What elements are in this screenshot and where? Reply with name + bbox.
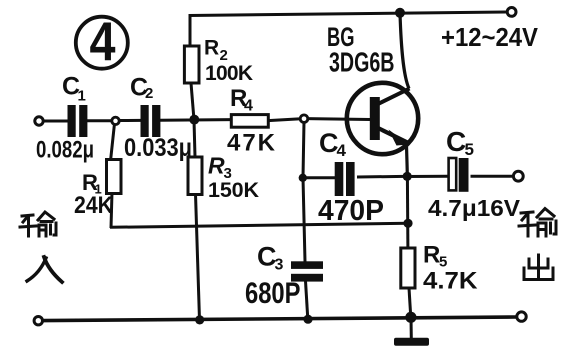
svg-text:1: 1 [78, 88, 86, 105]
svg-text:470P: 470P [318, 195, 384, 227]
svg-text:0.082μ: 0.082μ [36, 137, 94, 164]
svg-text:+12~24V: +12~24V [441, 22, 539, 52]
svg-text:R: R [423, 242, 440, 269]
svg-text:3: 3 [275, 257, 284, 274]
svg-text:C: C [446, 126, 466, 157]
svg-text:3DG6B: 3DG6B [329, 47, 395, 78]
svg-text:4.7K: 4.7K [423, 268, 478, 295]
svg-text:R: R [204, 37, 219, 60]
svg-text:4: 4 [244, 98, 253, 115]
svg-text:100K: 100K [205, 62, 253, 85]
svg-text:0.033μ: 0.033μ [124, 134, 192, 162]
svg-text:4: 4 [90, 10, 117, 71]
svg-text:2: 2 [145, 85, 153, 102]
svg-text:4.7μ16V: 4.7μ16V [428, 195, 521, 221]
svg-text:680P: 680P [245, 277, 301, 310]
svg-text:4: 4 [337, 141, 347, 160]
svg-text:5: 5 [465, 140, 474, 159]
svg-text:150K: 150K [208, 178, 259, 202]
svg-text:47K: 47K [227, 130, 276, 157]
svg-text:R: R [208, 153, 225, 179]
svg-text:24K: 24K [74, 192, 114, 219]
